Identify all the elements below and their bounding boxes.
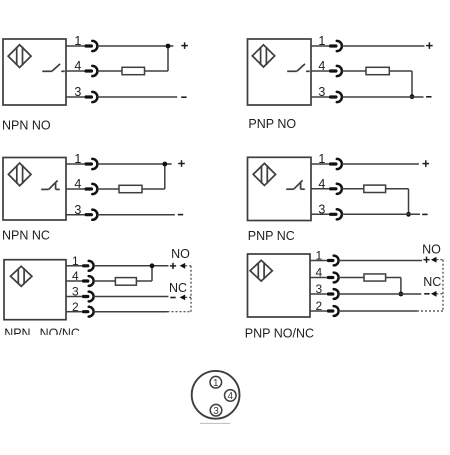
svg-text:NPN NC: NPN NC <box>2 228 50 242</box>
svg-text:3: 3 <box>213 406 219 417</box>
svg-text:NO: NO <box>422 242 441 256</box>
svg-text:NO: NO <box>171 247 190 261</box>
svg-text:4: 4 <box>316 266 323 280</box>
svg-text:4: 4 <box>74 59 81 73</box>
svg-text:4: 4 <box>74 177 81 191</box>
svg-text:3: 3 <box>318 85 325 99</box>
svg-text:PNP NO: PNP NO <box>248 117 296 131</box>
svg-text:2: 2 <box>316 299 323 313</box>
svg-text:3: 3 <box>318 202 325 216</box>
svg-text:3: 3 <box>74 85 81 99</box>
svg-text:4: 4 <box>228 391 234 402</box>
svg-text:3: 3 <box>72 285 79 299</box>
svg-text:3: 3 <box>316 282 323 296</box>
svg-text:4: 4 <box>318 59 325 73</box>
svg-text:NC: NC <box>423 275 441 289</box>
svg-text:1: 1 <box>318 34 325 48</box>
svg-text:NC: NC <box>169 281 187 295</box>
svg-text:1: 1 <box>316 249 323 263</box>
svg-text:1: 1 <box>74 152 81 166</box>
svg-text:3: 3 <box>74 203 81 217</box>
svg-text:2: 2 <box>72 300 79 314</box>
svg-text:PNP NC: PNP NC <box>248 229 295 243</box>
svg-text:1: 1 <box>318 152 325 166</box>
svg-text:NPN NO: NPN NO <box>2 118 51 132</box>
svg-text:1: 1 <box>213 378 219 389</box>
svg-text:4: 4 <box>318 177 325 191</box>
svg-text:1: 1 <box>74 34 81 48</box>
svg-text:PNP NO/NC: PNP NO/NC <box>245 326 314 340</box>
svg-text:1: 1 <box>72 254 79 268</box>
svg-text:4: 4 <box>72 269 79 283</box>
